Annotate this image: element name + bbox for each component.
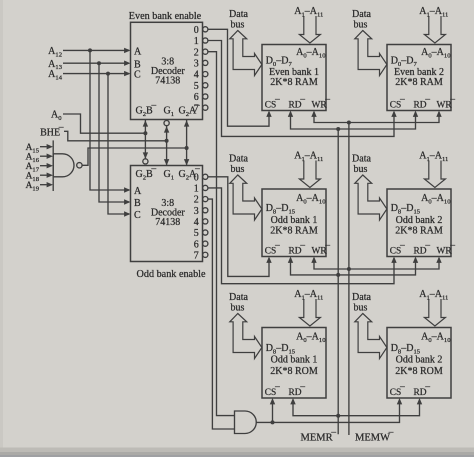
svg-text:MEMW¯​: MEMW¯​ [355,431,394,444]
svg-text:C: C [134,70,141,81]
svg-text:A: A [134,186,142,197]
svg-text:B: B [134,198,141,209]
svg-text:Even bank enable: Even bank enable [129,11,202,22]
svg-text:bus: bus [231,164,245,175]
svg-text:Data: Data [352,9,371,20]
svg-text:6: 6 [194,92,199,103]
svg-text:C: C [134,210,141,221]
svg-text:Data: Data [229,154,248,165]
svg-text:0: 0 [194,172,199,183]
svg-text:74138: 74138 [155,76,180,87]
svg-text:2: 2 [194,47,199,58]
svg-text:MEMR¯​: MEMR¯​ [301,431,337,444]
svg-text:2K*8 ROM: 2K*8 ROM [395,366,443,377]
svg-text:2K*8 RAM: 2K*8 RAM [395,77,443,88]
svg-text:Data: Data [229,292,248,303]
svg-text:2K*8 ROM: 2K*8 ROM [270,366,318,377]
svg-text:5: 5 [194,81,199,92]
svg-text:3: 3 [194,206,199,217]
svg-text:1: 1 [194,36,199,47]
svg-text:2K*8 RAM: 2K*8 RAM [270,77,318,88]
svg-text:2K*8 RAM: 2K*8 RAM [270,226,318,237]
svg-text:2: 2 [194,195,199,206]
svg-text:Odd bank 1: Odd bank 1 [271,215,318,226]
svg-text:Odd bank 2: Odd bank 2 [396,215,443,226]
svg-text:6: 6 [194,239,199,250]
svg-text:74138: 74138 [155,217,180,228]
svg-text:7: 7 [194,250,199,261]
svg-text:bus: bus [231,303,245,314]
svg-text:Data: Data [352,292,371,303]
svg-text:bus: bus [354,164,368,175]
svg-text:2K*8 RAM: 2K*8 RAM [395,226,443,237]
svg-text:1: 1 [194,184,199,195]
svg-text:B: B [134,59,141,70]
svg-text:0: 0 [194,25,199,36]
svg-text:Data: Data [352,154,371,165]
svg-text:4: 4 [194,70,199,81]
svg-text:Odd bank 1: Odd bank 1 [271,355,318,366]
svg-text:5: 5 [194,228,199,239]
svg-text:Odd bank enable: Odd bank enable [137,269,207,280]
svg-text:A: A [134,47,142,58]
svg-text:bus: bus [231,20,245,31]
svg-text:Odd bank 2: Odd bank 2 [396,355,443,366]
svg-text:3: 3 [194,59,199,70]
svg-text:4: 4 [194,217,199,228]
svg-text:Data: Data [229,9,248,20]
svg-text:bus: bus [354,20,368,31]
svg-text:bus: bus [354,303,368,314]
